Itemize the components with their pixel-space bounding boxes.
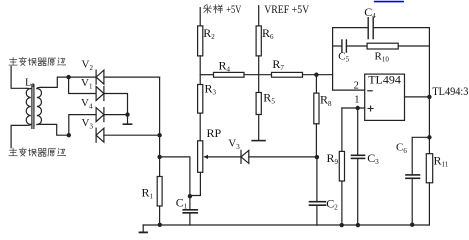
wire V1 to common <box>104 94 128 115</box>
svg-text:TL494: TL494 <box>368 73 401 87</box>
node R8 bottom <box>315 155 319 159</box>
wire RP bottom to C1 <box>190 172 201 195</box>
wire primary bottom lead <box>11 125 26 147</box>
wire output down <box>428 97 430 154</box>
ground at R5 bottom <box>258 115 260 141</box>
hyperlink underline artifact <box>375 1 403 3</box>
wire R2 to R3 <box>199 56 201 85</box>
resistor R1 <box>159 157 161 177</box>
transformer L1 primary winding <box>26 89 31 125</box>
resistor R9 <box>341 108 343 151</box>
resistor R7 <box>272 72 303 77</box>
resistor R11 <box>426 154 432 183</box>
wire R6 to R5 <box>258 56 260 93</box>
node output <box>427 95 431 99</box>
wire R3 to RP <box>199 113 201 141</box>
diode V3 (rectifier) <box>95 128 97 142</box>
node V1 V4 common <box>125 112 129 116</box>
label 主变换器原边 (bottom left) <box>9 148 66 156</box>
resistor R10 <box>367 43 398 49</box>
node C6 branch <box>427 135 431 139</box>
wire TL494 output <box>405 96 430 98</box>
wire V3 to R8 bottom <box>249 156 317 158</box>
resistor R3 <box>198 85 203 114</box>
svg-text:VREF +5V: VREF +5V <box>264 2 309 16</box>
resistor R8 <box>315 75 317 93</box>
wire branch to V4 <box>69 115 96 136</box>
diode V4 <box>103 108 105 122</box>
wire R4 row <box>200 74 213 76</box>
wire R10 to right <box>398 45 429 47</box>
node C3 bottom <box>356 223 360 227</box>
wire V2 to right column <box>104 76 160 78</box>
capacitor C1 <box>183 209 197 211</box>
capacitor C3 <box>357 108 359 155</box>
transformer core <box>32 85 34 129</box>
resistor R2 <box>198 26 203 56</box>
wire V4 to common <box>104 114 128 116</box>
ground rail <box>143 224 429 226</box>
svg-text:2: 2 <box>354 81 359 92</box>
wire right column down <box>159 77 161 157</box>
wire junction to C1 <box>160 157 190 210</box>
node R9 bottom <box>340 223 344 227</box>
minus input mark <box>368 90 372 92</box>
wire secondary bottom lead <box>42 124 69 135</box>
node C6 bottom <box>410 223 414 227</box>
wire to V2 anode <box>69 76 97 78</box>
node R1 bottom <box>158 223 162 227</box>
resistor R4 <box>214 72 245 77</box>
wire C4 to right <box>373 27 429 29</box>
node R1 top junction <box>157 155 161 159</box>
wire right vertical to output <box>428 28 430 97</box>
wire branch to V1 <box>69 77 97 93</box>
wire primary top lead <box>11 67 26 89</box>
wire pin2 node vertical <box>333 28 365 91</box>
wire C4 top branch <box>333 27 369 29</box>
diode V3 (near RP) <box>240 150 242 163</box>
wire V3 row to column <box>104 134 160 136</box>
node secondary bottom junction <box>67 133 71 137</box>
wire pin1 <box>342 107 365 109</box>
transformer L1 secondary winding <box>37 89 42 125</box>
label 主变换器原边 (top left) <box>9 57 66 65</box>
node secondary top junction <box>66 75 70 79</box>
svg-text:1: 1 <box>354 95 359 106</box>
wire R4 to R7 <box>244 74 272 76</box>
diode V1 <box>103 87 105 101</box>
wire VREF column <box>258 6 260 26</box>
capacitor C4 <box>367 18 369 39</box>
capacitor C2 <box>316 157 318 201</box>
wiper arrow into RP <box>205 156 241 158</box>
diode V2 <box>95 70 97 84</box>
capacitor C5 <box>333 45 342 47</box>
node R8 top <box>314 73 318 77</box>
capacitor C6 <box>412 137 429 174</box>
ground at V1 V4 common <box>127 115 129 124</box>
potentiometer RP <box>198 141 203 173</box>
wire R7 to node <box>303 74 333 76</box>
resistor R5 <box>256 93 261 115</box>
ground symbol left <box>142 225 144 232</box>
svg-text:RP: RP <box>207 126 222 140</box>
node V3 junction <box>157 133 161 137</box>
wire secondary top lead <box>42 77 69 87</box>
resistor R6 <box>256 26 261 56</box>
label 采样 <box>203 5 222 14</box>
svg-text:+5V: +5V <box>226 2 241 16</box>
op-amp U1 TL494 box <box>365 74 405 120</box>
svg-text:TL494:3: TL494:3 <box>432 84 468 98</box>
plus input mark <box>368 106 373 111</box>
node C1 RP junction <box>188 194 192 198</box>
wire sampling 5V column <box>199 8 201 26</box>
node pin1 C3 <box>356 106 360 110</box>
